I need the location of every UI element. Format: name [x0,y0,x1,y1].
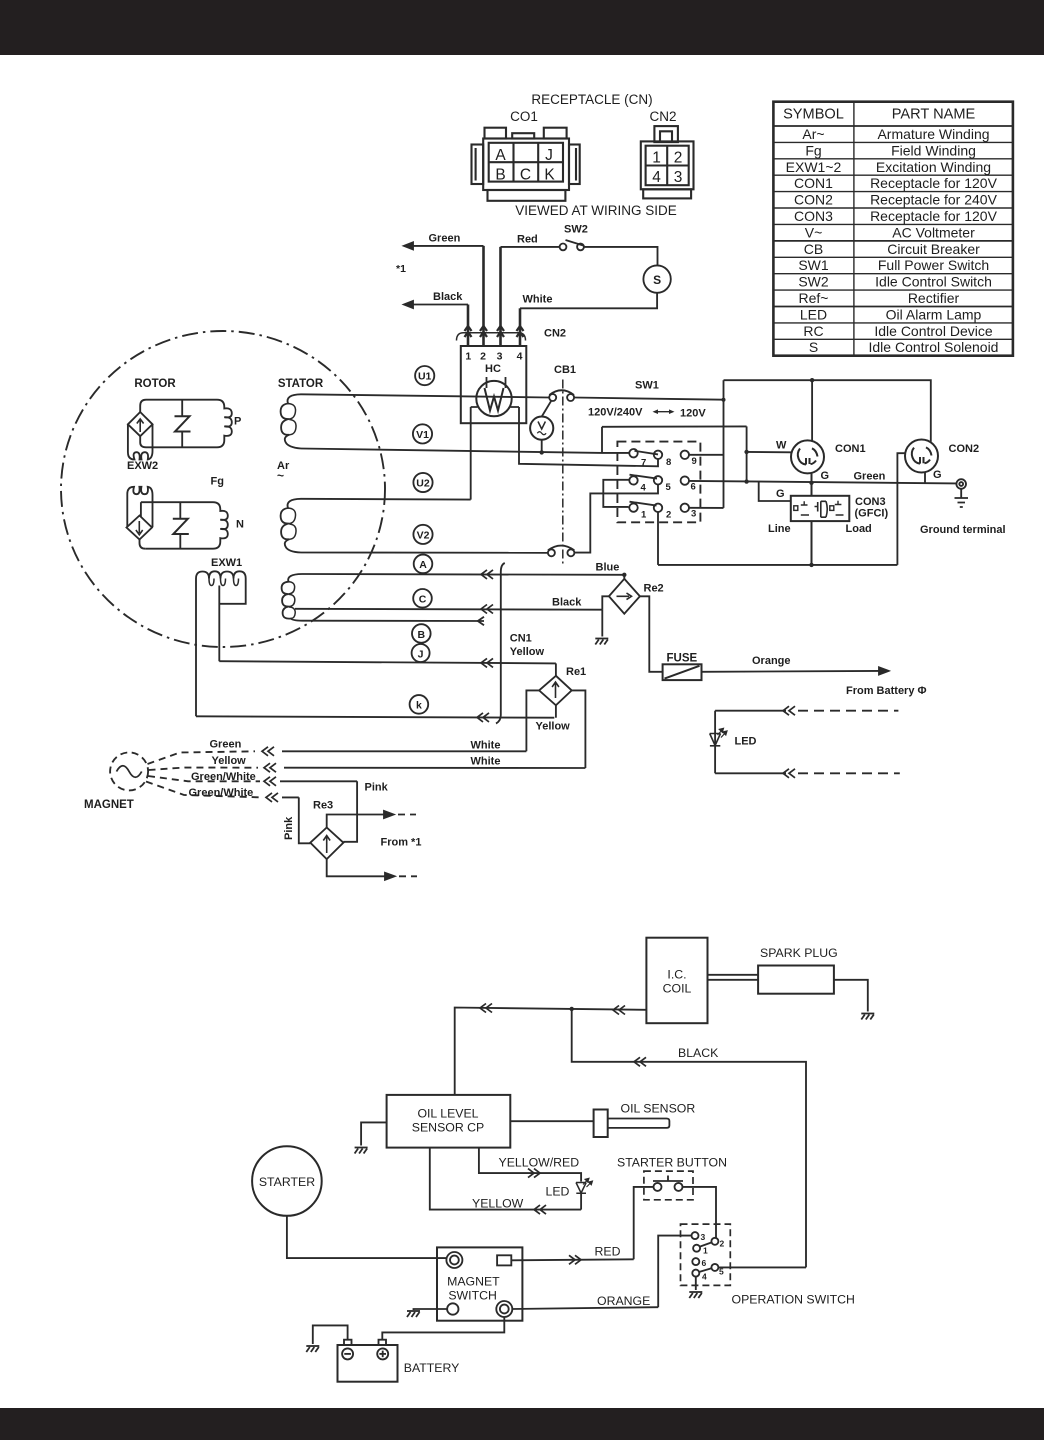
receptacle CON1 [791,440,824,473]
ground terminal symbol [955,479,969,507]
svg-text:YELLOW: YELLOW [472,1197,524,1211]
SW1 blade 1-2 [630,502,657,506]
junction W riser green row [744,479,748,483]
wire contact 9 to right riser [689,454,724,456]
EXW2 lower pocket with loops [127,487,152,527]
voltage select arrow [653,409,675,414]
connector CN2 body [641,126,694,198]
wire top bus [724,380,931,441]
wire I.C. coil to oil level sensor [455,1008,647,1095]
wire contact 3 to right riser [689,507,724,509]
svg-text:G: G [821,470,830,482]
svg-text:MAGNET: MAGNET [84,799,134,811]
svg-text:Yellow: Yellow [510,646,545,658]
svg-text:1: 1 [703,1246,708,1256]
solenoid S [643,265,670,292]
wire CON3 bottom to bus [811,521,813,565]
generator boundary dashed circle [61,331,385,647]
wire starter button right lead [683,1187,717,1238]
rectifier Re1 diamond [539,676,572,706]
svg-text:CN1: CN1 [510,633,532,645]
magnet fan dashed lead 2 [149,768,259,771]
junction CON3 bottom bus [809,563,813,567]
svg-text:CN2: CN2 [544,328,566,340]
svg-text:K: K [544,167,555,184]
svg-text:Idle Control Switch: Idle Control Switch [875,274,992,290]
svg-text:Green: Green [210,739,242,751]
switch SW2 [560,240,584,250]
voltmeter V~ [530,417,553,440]
svg-text:Fg: Fg [805,142,821,158]
svg-text:2: 2 [666,510,671,521]
wire coil terminal to ground [414,1309,448,1310]
svg-text:3: 3 [674,169,683,186]
battery minus terminal [342,1348,353,1359]
svg-text:3: 3 [701,1232,706,1242]
svg-text:8: 8 [666,457,671,468]
connector arrows black row [634,1057,646,1066]
svg-text:S: S [809,339,818,355]
svg-text:CON3: CON3 [855,496,886,508]
svg-text:V~: V~ [805,224,823,240]
EXW1 body bottom [219,586,245,604]
starter button contacts [653,1176,683,1191]
svg-text:1: 1 [641,510,647,521]
wire orange row [512,1307,658,1309]
junction blue [622,573,626,577]
svg-text:J: J [418,648,424,660]
svg-text:V1: V1 [416,429,429,441]
magnet fan dashed lead 3 [148,776,260,781]
svg-text:*1: *1 [396,263,406,275]
battery box [338,1345,398,1382]
terminal circle k [410,695,429,714]
wire contact 5 to CB1 lower pole [574,485,658,553]
svg-text:SYMBOL: SYMBOL [783,107,844,123]
svg-text:CON3: CON3 [794,208,833,224]
svg-text:Blue: Blue [596,562,620,574]
terminal circle B [412,624,431,643]
svg-text:Field Winding: Field Winding [891,142,976,158]
svg-text:Orange: Orange [752,655,791,667]
svg-text:SW2: SW2 [564,224,588,236]
svg-text:Armature Winding: Armature Winding [877,126,989,142]
CB1 lower pole [548,546,575,557]
connector arrows on k row [477,713,489,722]
svg-text:A: A [419,559,427,571]
rectifier EXW2 diode (lower, arrow down) [127,516,153,540]
wire HC to SW1 contact 8 [519,407,658,466]
LED (oil alarm, engine side) [576,1178,593,1209]
rectifier Re2 diamond [609,579,640,614]
CB1 upper pole [549,390,574,401]
svg-text:RECEPTACLE (CN): RECEPTACLE (CN) [531,92,652,107]
operation switch contact 3 [692,1232,699,1239]
wire White from solenoid [520,293,657,309]
terminal circle U1 [415,366,434,385]
wire Re1 right to white row 2 [572,690,586,768]
SW1 blade 7-8 [635,451,659,455]
svg-text:120V: 120V [680,408,706,420]
wire CON1 top pin [811,380,813,441]
magnet sine symbol [117,766,142,778]
wire voltmeter to V1 row [541,440,543,453]
svg-text:I.C.: I.C. [667,968,686,982]
svg-text:BLACK: BLACK [678,1046,719,1060]
svg-text:Receptacle for 120V: Receptacle for 120V [870,175,998,191]
svg-text:N: N [236,519,244,531]
HC collar [471,406,519,408]
SW1 feed bracket contacts 4 and 1 [603,480,629,507]
svg-text:Green: Green [854,471,886,483]
battery plus terminal [377,1348,388,1359]
svg-text:OIL LEVEL: OIL LEVEL [417,1107,478,1121]
CN2 pin 2 arrow [480,326,487,337]
svg-text:SWITCH: SWITCH [448,1289,497,1303]
wire Re3 bottom to From *1 [327,859,417,880]
stator winding coil 2 [281,499,301,553]
svg-text:Re1: Re1 [566,666,586,678]
svg-text:AC Voltmeter: AC Voltmeter [892,224,975,240]
stator coil 2 loop detail [288,508,296,539]
wire Re2 to fuse [640,596,663,672]
svg-text:YELLOW/RED: YELLOW/RED [499,1156,580,1170]
svg-text:Pink: Pink [283,816,295,840]
svg-text:MAGNET: MAGNET [447,1275,500,1289]
top black band [0,0,1044,55]
starter button dashed box [644,1171,693,1200]
svg-text:CN2: CN2 [649,109,676,124]
svg-text:ROTOR: ROTOR [134,378,176,390]
svg-text:V2: V2 [417,529,430,541]
SW1 contact 2 [654,504,662,512]
battery post left [344,1340,352,1345]
connector arrows coil wire inner [613,1006,625,1015]
wire sensor box to oil sensor [510,1120,593,1122]
SW1 contact 3 [681,504,689,512]
wire CB1 right pole to SW1 row [574,398,723,400]
CON3 internal test button right [830,501,844,515]
svg-text:4: 4 [702,1272,707,1282]
connector CN2 bracket [457,333,526,341]
wire Green (to *1) [404,242,484,346]
svg-text:From *1: From *1 [381,837,422,849]
svg-text:EXW1: EXW1 [211,557,242,569]
wire blue from A row [623,575,625,579]
SW1 contact 6 [681,476,689,484]
wire CB1 left pole to voltmeter [542,401,551,416]
junction voltmeter V1 row [540,450,544,454]
wire J row [219,661,556,663]
starter motor circle [252,1146,322,1216]
bottom black band [0,1408,1044,1440]
oil sensor probe [608,1119,670,1128]
wire pink right to Re3 [343,781,357,842]
wire Red from SW2 to solenoid [584,247,658,266]
svg-text:120V/240V: 120V/240V [588,407,643,419]
coil to plug double lead [708,975,759,980]
wire C row corner to Re2 left [602,596,609,609]
SW1 contact 1 [629,503,637,511]
svg-text:3: 3 [691,509,696,520]
magnet switch coil terminal [447,1303,458,1314]
wire black row [572,1009,806,1268]
stator winding Ar coil 1 [281,394,301,448]
wire bottom bus [658,564,897,566]
junction W riser [744,450,748,454]
SW1 contact 8 [654,451,662,459]
HC winding circle W [476,377,511,416]
wire Re1 left to white row 1 [526,690,539,751]
operation switch contact 5 [711,1264,718,1271]
wire LED branch upper (dashed from battery) [715,706,898,715]
receptacle CON2 [905,440,938,473]
svg-text:SENSOR CP: SENSOR CP [412,1121,484,1135]
svg-text:SW2: SW2 [798,274,829,290]
SW1 blade 4-5 [630,475,658,479]
svg-text:k: k [416,700,422,712]
svg-text:STATOR: STATOR [278,378,324,390]
svg-text:B: B [495,167,505,184]
svg-text:Load: Load [846,523,872,535]
connector arrows coil wire outer [480,1004,492,1013]
CN2 pin 4 arrow [517,326,524,337]
svg-text:Oil Alarm Lamp: Oil Alarm Lamp [886,306,982,322]
svg-text:6: 6 [691,482,696,493]
wire CON2 G pin [924,472,926,483]
wire orange riser into contact 3 [658,1236,691,1308]
stator coil 1 loop detail [288,404,296,435]
svg-text:LED: LED [546,1185,570,1199]
svg-text:C: C [520,167,531,184]
svg-text:5: 5 [666,482,672,493]
wire U1 row [301,394,549,397]
svg-text:B: B [418,629,426,641]
junction CON1 G green row [809,481,813,485]
fuse FUSE [663,664,702,680]
wire starter button left lead [634,1187,654,1259]
svg-text:PART NAME: PART NAME [892,107,976,123]
svg-text:S: S [653,273,661,287]
svg-text:1: 1 [465,351,471,363]
svg-text:CB1: CB1 [554,364,576,376]
svg-text:EXW1~2: EXW1~2 [786,159,842,175]
terminal circle V2 [413,525,432,544]
svg-text:OIL SENSOR: OIL SENSOR [621,1102,696,1116]
svg-text:Black: Black [552,597,582,609]
rotor winding P unit top wire [140,400,224,413]
wire contact 5 to black riser [719,1266,807,1268]
terminal circle U2 [413,473,432,492]
wire C row [295,608,602,611]
svg-text:U2: U2 [416,478,430,490]
wire C row to ground [601,610,603,637]
CN2 pin 1 arrow [465,326,472,337]
connector arrows white row 1 [262,747,274,756]
wire J row corner to Re1 [555,663,557,675]
svg-text:G: G [776,488,785,500]
wire into SW1 contact 7 [602,452,630,454]
wire V2 row [301,552,548,554]
svg-text:Black: Black [433,291,463,303]
svg-text:P: P [234,416,241,428]
svg-text:SW1: SW1 [635,380,659,392]
svg-text:4: 4 [517,351,523,363]
magnet switch terminal bolt left [446,1252,462,1268]
connector arrows green/white row 1 [264,777,276,786]
EXW2 upper pocket with loops [128,424,153,459]
wire contact 4 to ground [695,1277,697,1290]
wire W into CON1 [747,451,791,453]
op switch blade 4-5 [699,1268,712,1272]
magnet dashed circle [110,752,148,790]
wire green/white row 2 [282,796,299,798]
svg-text:RC: RC [803,323,823,339]
svg-text:W: W [776,440,787,452]
svg-text:Idle Control Solenoid: Idle Control Solenoid [869,339,999,355]
svg-text:CO1: CO1 [510,109,538,124]
svg-text:(GFCI): (GFCI) [855,508,889,520]
wire Black (to *1) [404,301,468,346]
svg-text:FUSE: FUSE [667,653,698,665]
connector arrows on C row [481,605,493,614]
svg-text:Ref~: Ref~ [799,290,829,306]
CN2 pin 3 arrow [497,326,504,337]
svg-text:CON1: CON1 [835,443,866,455]
svg-text:Receptacle for 120V: Receptacle for 120V [870,208,998,224]
wire CON1 G pin to CON3 [811,473,813,496]
connector arrows white row 2 [264,763,276,772]
svg-text:6: 6 [702,1258,707,1268]
wire V1 row corner up to 120V row [601,427,603,453]
svg-text:Ar~: Ar~ [802,126,824,142]
wire yellow row back to sensor [430,1148,581,1215]
svg-text:4: 4 [641,483,647,494]
terminal circle J [412,644,430,662]
svg-text:STARTER BUTTON: STARTER BUTTON [617,1156,727,1170]
svg-text:White: White [523,294,553,306]
terminal circle A [414,555,433,574]
terminal circle C [413,589,432,608]
symbol table frame [773,102,1013,356]
connector arrows on J row [481,658,493,667]
svg-text:CON2: CON2 [794,192,833,208]
svg-text:CON2: CON2 [949,443,980,455]
rotor coil P (loops right) [146,407,232,447]
svg-text:SW1: SW1 [798,257,829,273]
EXW1 coil inner loops [209,579,239,586]
wire 120V row to CON1 riser [602,425,747,427]
wire red row [511,1255,633,1264]
wire Re3 top to From *1 [327,811,416,828]
svg-text:Circuit Breaker: Circuit Breaker [887,241,980,257]
connector CO1 body [472,128,580,201]
svg-text:White: White [471,740,501,752]
ground (oil level sensor) [355,1148,368,1154]
wire V1 row [301,449,602,453]
svg-text:Green/White: Green/White [191,771,256,783]
svg-text:1: 1 [652,150,661,167]
svg-text:Yellow: Yellow [212,755,247,767]
wire white row 2 [284,767,585,769]
wire battery minus to ground [313,1325,348,1344]
svg-text:EXW2: EXW2 [127,460,158,472]
svg-text:Re3: Re3 [313,800,333,812]
wire B row [302,620,484,622]
svg-text:Red: Red [517,234,538,246]
svg-text:Rectifier: Rectifier [908,290,960,306]
svg-text:2: 2 [720,1239,725,1249]
svg-text:G: G [933,469,942,481]
magnet fan dashed lead 4 [146,782,262,798]
wire sensor box to ground [361,1122,387,1145]
connector CN1 bracket line [496,563,505,724]
svg-text:Green: Green [429,233,461,245]
wire green/white row 1 [280,780,357,782]
wire LED branch lower (dashed from battery) [715,769,900,778]
svg-text:Green/White: Green/White [189,787,254,799]
oil sensor body [594,1110,608,1138]
CON3 internal plug blades [815,501,828,517]
wire plug to ground [834,980,868,1012]
rotor winding N unit top wire [141,502,220,509]
svg-text:ORANGE: ORANGE [597,1294,650,1308]
svg-text:VIEWED AT WIRING SIDE: VIEWED AT WIRING SIDE [515,203,677,218]
junction black riser [570,1007,574,1011]
oil level sensor CP box [387,1095,511,1148]
svg-text:Re2: Re2 [644,583,664,595]
wire U2 row [301,498,471,501]
svg-text:Receptacle for 240V: Receptacle for 240V [870,192,998,208]
wire bus riser to CON2 W [897,453,904,565]
operation switch contact 4 [692,1270,699,1277]
svg-text:Ground terminal: Ground terminal [920,524,1006,536]
spark plug box [758,966,834,994]
wire Re1 bottom to k row [555,705,557,717]
wire HC to U2 row [470,407,472,500]
wire G step into CON3 [759,482,791,501]
svg-text:Excitation Winding: Excitation Winding [876,159,991,175]
svg-text:~: ~ [277,469,284,483]
field winding Fg (upper Z) [175,400,191,448]
magnet fan dashed lead 1 [148,751,256,764]
svg-text:CB: CB [804,241,823,257]
terminal circle V1 [413,424,432,443]
connector half arrow on B row [478,617,484,626]
rectifier EXW2 diode (upper, arrow up) [128,412,153,436]
svg-text:9: 9 [692,456,697,467]
battery post right [379,1340,387,1345]
operation switch dashed box [681,1224,731,1285]
svg-text:Full Power Switch: Full Power Switch [878,257,989,273]
stator winding coil 3 [282,574,302,621]
wire yellow/red branch [479,1148,581,1182]
ground (magnet switch) [407,1311,420,1317]
LED oil alarm lamp [710,711,727,774]
svg-text:SPARK PLUG: SPARK PLUG [760,946,838,960]
svg-text:U1: U1 [418,371,432,383]
wire contact 2 to bottom bus [657,512,659,565]
operation switch contact 6 [692,1258,699,1265]
op switch blade 1-2 [700,1242,712,1246]
svg-text:OPERATION SWITCH: OPERATION SWITCH [732,1293,855,1307]
SW1 contact 9 [681,451,689,459]
wire CON1 W riser [746,426,748,481]
connector arrows green/white row 2 [266,793,278,802]
rotor coil N (loops right) [145,510,228,549]
svg-text:J: J [545,147,553,164]
svg-text:C: C [419,594,427,606]
